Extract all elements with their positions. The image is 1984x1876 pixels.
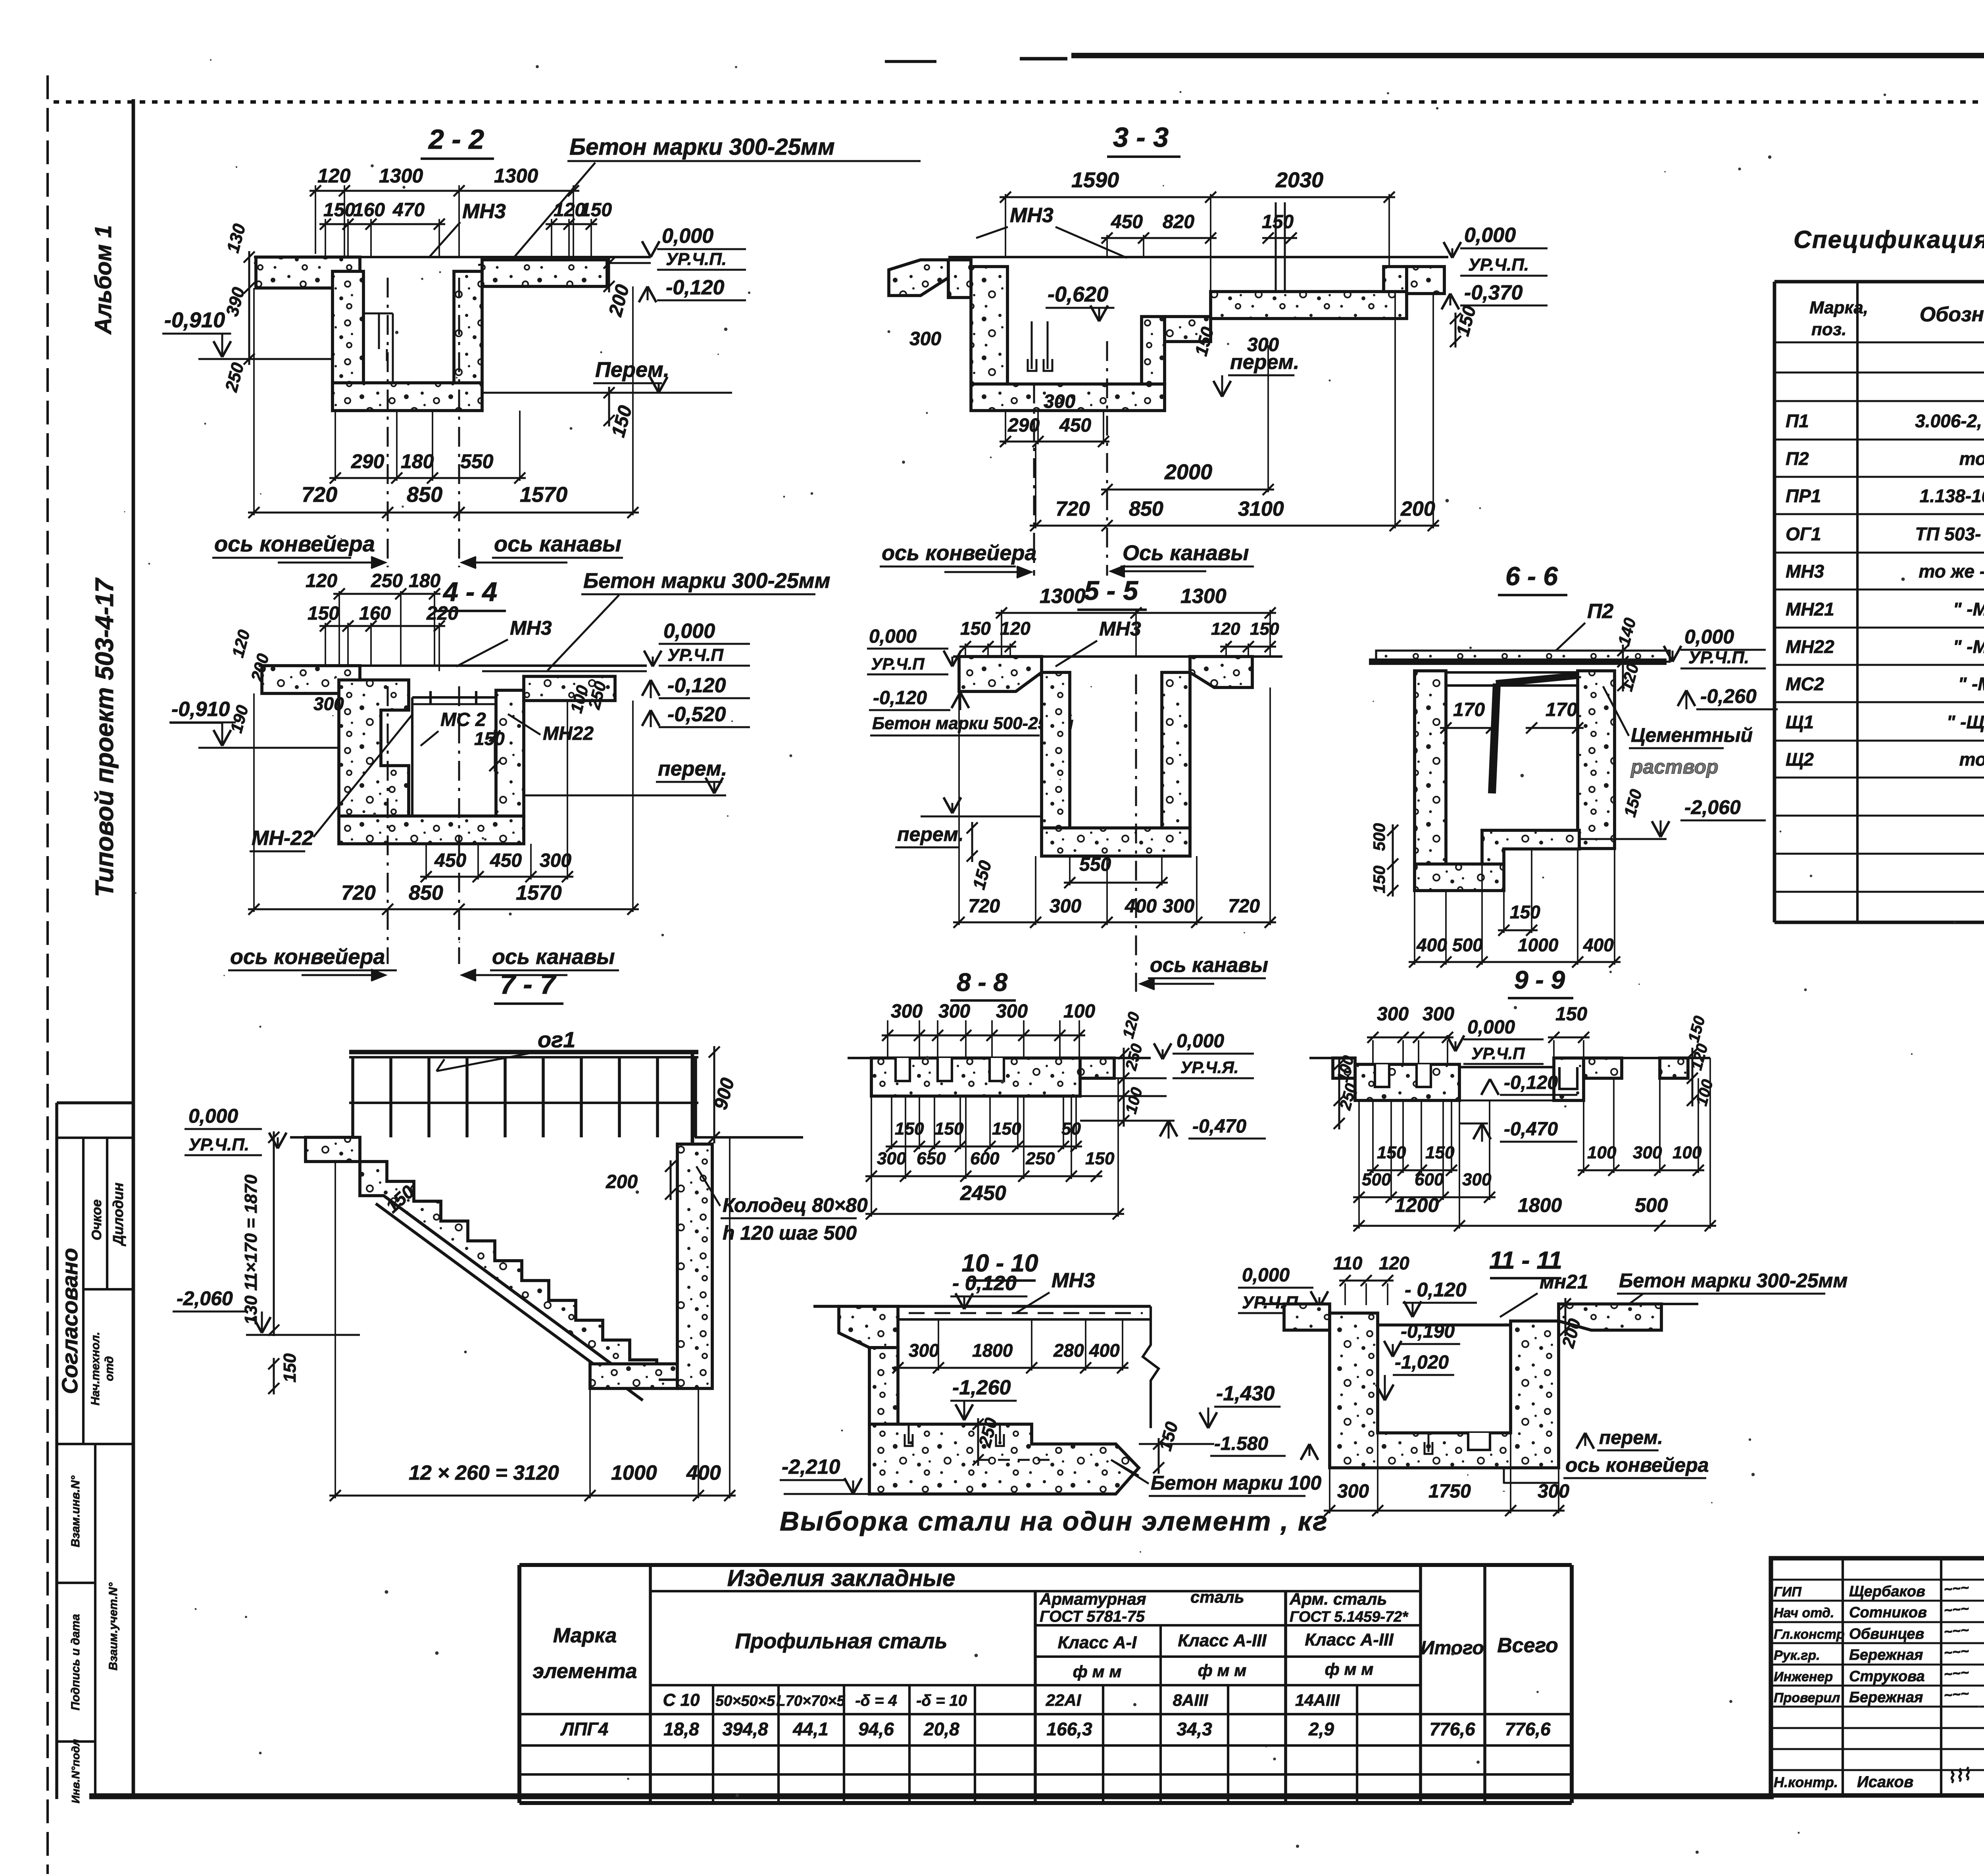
section 7-7 witness lines: [335, 1162, 336, 1498]
svg-text:-0,120: -0,120: [873, 687, 927, 709]
svg-text:3 - 3: 3 - 3: [1113, 122, 1169, 153]
svg-text:0,000: 0,000: [1467, 1017, 1515, 1038]
svg-text:ог1: ог1: [538, 1027, 575, 1052]
svg-text:150: 150: [1510, 902, 1540, 922]
svg-text:ЛПГ4: ЛПГ4: [560, 1719, 609, 1740]
section 5-5 bottom dims: [953, 922, 1276, 924]
section 6-6 inner dark liner: [1492, 684, 1497, 793]
svg-text:776,6: 776,6: [1429, 1719, 1475, 1740]
section 4-4 witness lines: [338, 591, 340, 666]
svg-text:300: 300: [1377, 1004, 1409, 1025]
svg-text:-0,470: -0,470: [1192, 1116, 1246, 1137]
svg-text:УР.Ч.П: УР.Ч.П: [871, 655, 925, 673]
section 7-7 floor lines: [290, 1136, 355, 1139]
section 9-9 left slab concrete: [1355, 1064, 1459, 1100]
section 3-3 left cut floor slab: [889, 260, 948, 296]
svg-text:300: 300: [1423, 1004, 1454, 1025]
svg-text:ГОСТ 5.1459-72*: ГОСТ 5.1459-72*: [1290, 1609, 1409, 1625]
svg-text:0,000: 0,000: [663, 620, 715, 643]
svg-text:300: 300: [877, 1149, 906, 1168]
svg-text:МН3: МН3: [1099, 618, 1141, 640]
svg-text:Изделия закладные: Изделия закладные: [727, 1565, 955, 1591]
svg-text:ОГ1: ОГ1: [1786, 524, 1821, 544]
svg-text:-1,260: -1,260: [952, 1376, 1011, 1399]
svg-text:100: 100: [1063, 1001, 1095, 1022]
svg-text:150: 150: [960, 618, 991, 639]
svg-text:Бережная: Бережная: [1849, 1647, 1923, 1663]
bottom table grid: [519, 1563, 1572, 1567]
svg-text:~~~: ~~~: [1943, 1622, 1969, 1640]
svg-text:150: 150: [934, 1119, 964, 1139]
section 5-5 right wall concrete: [1162, 672, 1190, 828]
svg-text:Дилодин: Дилодин: [110, 1183, 126, 1246]
svg-text:3100: 3100: [1238, 497, 1284, 520]
svg-text:-0,910: -0,910: [164, 308, 225, 332]
svg-text:ось конвейера: ось конвейера: [1565, 1454, 1709, 1476]
section 10-10 break line: [1143, 1306, 1159, 1428]
svg-text:450: 450: [490, 850, 522, 871]
svg-text:Бетон марки 300-25мм: Бетон марки 300-25мм: [1619, 1269, 1848, 1292]
svg-text:400: 400: [1089, 1340, 1120, 1361]
section 4-4 inner metal box MC2: [412, 697, 496, 816]
svg-text:Обвинцев: Обвинцев: [1849, 1626, 1924, 1642]
svg-text:Итого: Итого: [1421, 1638, 1484, 1659]
svg-text:500: 500: [1635, 1194, 1668, 1216]
section 3-3 pipe lines: [1275, 202, 1277, 292]
section 2-2 floor level lines: [254, 256, 651, 258]
svg-text:2030: 2030: [1275, 168, 1323, 192]
section 8-8 right ledge: [1080, 1058, 1114, 1078]
section 8-8 slab concrete: [871, 1058, 1080, 1096]
svg-text:300: 300: [909, 328, 941, 349]
section 9-9 far right piece: [1660, 1058, 1688, 1078]
svg-text:МН3: МН3: [462, 200, 506, 223]
section 11-11 inner anchors: [1428, 1433, 1430, 1452]
bottom frame thick line: [89, 1793, 1774, 1799]
svg-text:3.006-2, вып.П-2: 3.006-2, вып.П-2: [1915, 411, 1984, 431]
section 2-2 bottom dims row2: [248, 512, 639, 514]
svg-text:УР.Ч.П.: УР.Ч.П.: [666, 250, 727, 269]
svg-text:Струкова: Струкова: [1849, 1668, 1925, 1685]
svg-text:0,000: 0,000: [869, 626, 917, 647]
svg-text:МН-22: МН-22: [252, 827, 313, 850]
svg-text:Сотников: Сотников: [1849, 1604, 1927, 1621]
svg-text:300: 300: [996, 1001, 1028, 1022]
svg-text:850: 850: [407, 483, 442, 507]
section 10-10 left edge concrete: [839, 1306, 898, 1348]
svg-text:0,000: 0,000: [662, 225, 713, 248]
section 6-6 floor slab strip: [1376, 651, 1670, 662]
svg-text:1000: 1000: [611, 1461, 657, 1484]
section 7-7 stair underside line: [376, 1204, 643, 1400]
svg-text:1750: 1750: [1428, 1481, 1471, 1502]
svg-text:0,000: 0,000: [1177, 1031, 1224, 1052]
svg-text:180: 180: [409, 570, 440, 591]
section 3-3 rebar hooks: [1031, 321, 1033, 369]
svg-text:Бережная: Бережная: [1849, 1689, 1923, 1706]
svg-text:L70×70×5: L70×70×5: [776, 1693, 845, 1709]
svg-text:0,000: 0,000: [1242, 1265, 1290, 1286]
svg-text:94,6: 94,6: [858, 1719, 894, 1740]
svg-text:МС 2: МС 2: [440, 709, 486, 730]
svg-text:300: 300: [1538, 1481, 1569, 1502]
svg-text:-0,910: -0,910: [171, 698, 230, 721]
svg-text:250: 250: [371, 570, 403, 591]
svg-text:0,000: 0,000: [1464, 224, 1516, 247]
section 9-9 left edge piece: [1333, 1058, 1355, 1078]
section 3-3 right wall concrete: [1384, 267, 1407, 292]
svg-text:200: 200: [1400, 497, 1435, 520]
section 4-4 left wall concrete: [339, 680, 409, 816]
svg-text:500: 500: [1452, 935, 1483, 955]
svg-text:650: 650: [917, 1149, 946, 1168]
svg-text:34,3: 34,3: [1177, 1719, 1212, 1740]
svg-text:150: 150: [580, 200, 612, 221]
section 10-10 witness lines: [897, 1319, 899, 1371]
svg-text:Марка,: Марка,: [1809, 298, 1868, 317]
svg-text:" -МН22: " -МН22: [1953, 636, 1984, 657]
svg-text:170: 170: [1546, 699, 1577, 720]
section 2-2 axis lines: [387, 278, 389, 567]
section 11-11 pit concrete U: [1330, 1313, 1559, 1468]
svg-text:300: 300: [891, 1001, 923, 1022]
svg-text:МН3: МН3: [1052, 1269, 1095, 1292]
svg-text:1570: 1570: [516, 881, 562, 904]
section 4-4 right wall concrete: [496, 690, 524, 816]
svg-text:150: 150: [992, 1119, 1021, 1139]
section 3-3 floor line: [948, 256, 1448, 258]
section 5-5 floor line: [953, 655, 1282, 658]
svg-text:720: 720: [302, 483, 337, 507]
svg-text:20,8: 20,8: [923, 1719, 959, 1740]
svg-text:Альбом 1: Альбом 1: [90, 225, 116, 335]
svg-text:П2: П2: [1587, 600, 1613, 623]
section 4-4 right ledge concrete: [524, 676, 615, 701]
section 10-10 top slab lines: [898, 1305, 1151, 1308]
section 4-4 bottom dims row1: [420, 876, 573, 878]
svg-text:УР.Ч.П: УР.Ч.П: [667, 645, 724, 665]
svg-text:14АIII: 14АIII: [1295, 1691, 1340, 1709]
svg-text:перем.: перем.: [1230, 351, 1299, 374]
svg-text:Нач отд.: Нач отд.: [1774, 1605, 1834, 1621]
section 8-8 grooves: [896, 1058, 910, 1081]
section 4-4 left ledge concrete: [262, 666, 360, 693]
svg-text:100: 100: [1673, 1143, 1702, 1162]
section 6-6 bottom left slab: [1415, 864, 1504, 891]
svg-text:~~~: ~~~: [1943, 1579, 1969, 1598]
section 4-4 floor line: [259, 664, 647, 667]
svg-text:300: 300: [1633, 1143, 1662, 1162]
svg-text:~~~: ~~~: [1943, 1664, 1969, 1682]
svg-text:2 - 2: 2 - 2: [428, 124, 484, 155]
svg-text:120: 120: [306, 570, 337, 591]
svg-text:МН3: МН3: [1010, 204, 1054, 227]
svg-text:Щербаков: Щербаков: [1849, 1583, 1925, 1600]
section 7-7 bottom slab concrete: [590, 1364, 677, 1388]
section 2-2 right ledge concrete: [482, 260, 607, 286]
svg-text:290: 290: [351, 450, 384, 472]
section 11-11 right ledge concrete: [1559, 1304, 1661, 1330]
section 5-5 axis line: [1135, 674, 1137, 992]
svg-text:-1,430: -1,430: [1216, 1382, 1275, 1405]
section 5-5 bottom slab concrete: [1042, 828, 1190, 856]
svg-text:150: 150: [323, 200, 355, 221]
section 5-5 right ledge concrete: [1190, 657, 1252, 687]
svg-text:300: 300: [1050, 896, 1081, 917]
svg-text:1.138-10, вып.1: 1.138-10, вып.1: [1920, 486, 1984, 506]
section 9-9 grooves: [1375, 1064, 1389, 1087]
svg-text:то же -АС-МН3: то же -АС-МН3: [1919, 561, 1984, 582]
section 8-8 witness lines: [887, 1020, 888, 1058]
svg-text:394,8: 394,8: [722, 1719, 768, 1740]
svg-text:166,3: 166,3: [1046, 1719, 1092, 1740]
svg-text:Арматурная: Арматурная: [1039, 1590, 1146, 1608]
svg-text:Щ1: Щ1: [1786, 712, 1814, 732]
svg-text:720: 720: [1055, 497, 1090, 520]
svg-text:450: 450: [1059, 415, 1091, 436]
svg-text:отд: отд: [103, 1356, 116, 1381]
svg-text:1570: 1570: [520, 483, 567, 507]
svg-text:0,000: 0,000: [1684, 626, 1734, 648]
title block signature columns: [1842, 1558, 1844, 1795]
section 9-9 right pit concrete: [1554, 1058, 1584, 1100]
svg-text:ось конвейера: ось конвейера: [882, 541, 1036, 565]
section 9-9 right ledge: [1584, 1058, 1622, 1078]
section 4-4 bottom dims row2: [248, 908, 639, 910]
svg-text:ГОСТ 5781-75: ГОСТ 5781-75: [1040, 1608, 1145, 1625]
svg-text:550: 550: [460, 450, 494, 472]
svg-text:П2: П2: [1786, 448, 1809, 469]
svg-text:150: 150: [1425, 1143, 1455, 1162]
section 5-5 left ledge concrete: [959, 657, 1042, 691]
svg-text:Ось канавы: Ось канавы: [1123, 541, 1249, 565]
svg-text:-2,060: -2,060: [177, 1287, 233, 1310]
svg-text:Марка: Марка: [553, 1624, 617, 1647]
section 6-6 top liner slab: [1446, 672, 1592, 685]
paper noise specks: [888, 330, 890, 333]
svg-text:850: 850: [1129, 497, 1163, 520]
section 3-3 top dimension line: [1000, 196, 1395, 198]
svg-text:2450: 2450: [960, 1182, 1006, 1205]
section 5-5 left wall concrete: [1042, 672, 1070, 828]
section 7-7 stairs concrete: [360, 1162, 659, 1380]
svg-text:1300: 1300: [494, 165, 538, 187]
svg-text:600: 600: [970, 1149, 1000, 1168]
svg-text:120: 120: [1379, 1253, 1409, 1273]
svg-text:1000: 1000: [1518, 935, 1559, 955]
section 6-6 mid step slab: [1482, 830, 1579, 864]
svg-text:400: 400: [1416, 935, 1447, 955]
svg-text:4 - 4: 4 - 4: [442, 577, 497, 607]
svg-text:Профильная сталь: Профильная сталь: [735, 1629, 947, 1653]
svg-text:500: 500: [1362, 1170, 1391, 1189]
svg-text:1800: 1800: [972, 1340, 1013, 1361]
svg-text:-0,120: -0,120: [667, 674, 726, 697]
section 3-3 middle wall concrete: [1142, 317, 1165, 384]
svg-text:7 - 7: 7 - 7: [500, 969, 557, 1000]
svg-text:-0,260: -0,260: [1700, 685, 1757, 707]
svg-text:120: 120: [1211, 619, 1240, 639]
svg-text:сталь: сталь: [1190, 1588, 1244, 1606]
svg-text:Взаим.учет.N°: Взаим.учет.N°: [107, 1582, 120, 1671]
title block outline: [1771, 1558, 1984, 1795]
section 2-2 top dimension line 2: [319, 223, 445, 225]
section 2-2 bottom dims row1: [329, 477, 526, 479]
svg-text:-1.580: -1.580: [1214, 1433, 1268, 1454]
svg-text:8 - 8: 8 - 8: [957, 968, 1007, 997]
svg-text:450: 450: [1111, 211, 1143, 232]
svg-text:ось канавы: ось канавы: [494, 531, 621, 556]
svg-text:перем.: перем.: [658, 757, 727, 780]
section 5-5 witness lines: [1001, 610, 1002, 657]
svg-text:Подпись и дата: Подпись и дата: [69, 1614, 82, 1710]
section 11-11 witness lines: [1329, 1468, 1330, 1513]
svg-text:150: 150: [1370, 866, 1388, 893]
svg-text:~~~: ~~~: [1943, 1685, 1969, 1703]
svg-text:12 × 260 = 3120: 12 × 260 = 3120: [409, 1461, 559, 1484]
svg-text:470: 470: [392, 200, 425, 221]
section 2-2 bottom slab concrete: [333, 383, 482, 411]
svg-text:220: 220: [426, 603, 458, 624]
svg-text:УР.Ч.П.: УР.Ч.П.: [188, 1135, 249, 1154]
section 2-2 left wall concrete: [333, 271, 363, 411]
svg-text:УР.Ч.П.: УР.Ч.П.: [1688, 648, 1749, 667]
svg-text:-0,470: -0,470: [1504, 1119, 1558, 1140]
section 11-11 inner liner: [1378, 1323, 1511, 1327]
section 7-7 right wall concrete: [677, 1144, 712, 1388]
svg-text:Спецификация изделий на л: Спецификация изделий на линию поточную Л…: [1794, 226, 1984, 253]
svg-text:Бетон марки 300-25мм: Бетон марки 300-25мм: [569, 134, 835, 160]
svg-text:Гл.констр: Гл.констр: [1774, 1627, 1845, 1642]
svg-text:180: 180: [401, 450, 434, 472]
svg-text:-0,120: -0,120: [666, 276, 725, 299]
svg-text:УР.Ч.П.: УР.Ч.П.: [1468, 255, 1529, 275]
svg-text:ось конвейера: ось конвейера: [214, 531, 375, 556]
left band approval table: [57, 1137, 133, 1139]
section 5-5 top dim: [996, 612, 1276, 614]
svg-text:МН21: МН21: [1786, 599, 1834, 619]
svg-text:-0,190: -0,190: [1401, 1321, 1455, 1342]
svg-text:-δ = 10: -δ = 10: [916, 1692, 967, 1709]
svg-text:400: 400: [1583, 935, 1614, 955]
section 10-10 inner anchors: [908, 1424, 910, 1444]
section 2-2 right wall concrete: [454, 271, 482, 383]
section 2-2 top dimension line 1: [310, 190, 579, 192]
svg-text:1300: 1300: [379, 165, 423, 187]
svg-text:" -Щ1,Щ2: " -Щ1,Щ2: [1947, 712, 1984, 732]
section 2-2 inner notch lines: [363, 288, 365, 383]
svg-text:перем.: перем.: [897, 823, 964, 845]
svg-text:280: 280: [1053, 1340, 1084, 1361]
svg-text:300: 300: [909, 1340, 939, 1361]
svg-text:Класс А-III: Класс А-III: [1178, 1631, 1267, 1650]
svg-text:Проверил: Проверил: [1774, 1690, 1840, 1705]
svg-text:1200: 1200: [1395, 1194, 1439, 1216]
svg-text:- 0,120: - 0,120: [952, 1272, 1017, 1295]
svg-text:150: 150: [308, 603, 339, 624]
svg-text:120: 120: [317, 165, 351, 187]
svg-text:мн21: мн21: [1540, 1271, 1588, 1293]
svg-text:-2,060: -2,060: [1684, 796, 1741, 818]
svg-text:ф м м: ф м м: [1073, 1662, 1122, 1681]
svg-text:ТП 503- -АС-ОГ1: ТП 503- -АС-ОГ1: [1915, 524, 1984, 544]
svg-text:0,000: 0,000: [188, 1105, 238, 1127]
section 6-6 witness lines: [1414, 891, 1415, 965]
svg-text:820: 820: [1163, 211, 1194, 232]
svg-text:11 - 11: 11 - 11: [1489, 1247, 1562, 1274]
section 2-2 witness lines: [344, 185, 345, 257]
svg-text:2000: 2000: [1164, 460, 1212, 484]
svg-text:то же: то же: [1959, 749, 1984, 770]
svg-text:Арм. сталь: Арм. сталь: [1289, 1590, 1387, 1608]
top frame thick line: [1071, 53, 1984, 58]
svg-text:18,8: 18,8: [663, 1719, 699, 1740]
section 3-3 canal floor slab concrete: [1211, 292, 1407, 319]
svg-text:-0,120: -0,120: [1504, 1072, 1558, 1093]
svg-text:МН3: МН3: [1786, 561, 1824, 582]
svg-text:элемента: элемента: [533, 1660, 637, 1683]
section 7-7 bottom dims: [329, 1495, 736, 1497]
section 3-3 axis lines: [1033, 384, 1035, 576]
svg-text:600: 600: [1415, 1170, 1444, 1189]
section 10-10 bottom mass concrete: [869, 1424, 1139, 1494]
svg-text:200: 200: [606, 1171, 638, 1192]
svg-text:1300: 1300: [1040, 585, 1086, 608]
svg-text:400: 400: [1125, 896, 1157, 917]
svg-text:Обозначение: Обозначение: [1920, 303, 1984, 326]
section 9-9 middle floor lines: [1459, 1066, 1554, 1068]
svg-text:150: 150: [1250, 619, 1279, 639]
svg-text:ось канавы: ось канавы: [492, 945, 615, 969]
svg-text:Класс А-I: Класс А-I: [1058, 1633, 1137, 1652]
svg-text:720: 720: [1228, 896, 1260, 917]
svg-text:Рук.гр.: Рук.гр.: [1774, 1648, 1820, 1663]
svg-text:300: 300: [313, 693, 344, 714]
section 7-7 railing OG1: [349, 1050, 698, 1054]
svg-text:ось конвейера: ось конвейера: [230, 945, 385, 969]
section 3-3 dim line 2: [1101, 237, 1217, 239]
svg-text:50×50×5: 50×50×5: [715, 1693, 775, 1709]
section 9-9 witness lines: [1372, 1040, 1374, 1064]
section 2-2 left ledge concrete: [256, 257, 360, 288]
svg-text:ось канавы: ось канавы: [1150, 954, 1268, 977]
svg-text:1300: 1300: [1180, 585, 1227, 608]
svg-text:- 0,120: - 0,120: [1405, 1279, 1467, 1301]
section 7-7 pit inner lines: [659, 1379, 677, 1381]
svg-text:" -МН21: " -МН21: [1953, 599, 1984, 619]
svg-text:450: 450: [434, 850, 466, 871]
svg-text:170: 170: [1453, 699, 1485, 720]
svg-text:МН3: МН3: [510, 617, 552, 639]
svg-text:150: 150: [1085, 1149, 1115, 1168]
svg-text:Бетон марки 300-25мм: Бетон марки 300-25мм: [583, 569, 831, 593]
section 7-7 left ledge concrete: [306, 1137, 360, 1162]
svg-text:h 120 шаг 500: h 120 шаг 500: [723, 1222, 857, 1244]
svg-text:Инв.N°подл: Инв.N°подл: [69, 1739, 82, 1803]
svg-text:-0,620: -0,620: [1048, 282, 1108, 306]
section 4-4 axis lines: [387, 686, 389, 964]
svg-text:перем.: перем.: [1599, 1427, 1663, 1448]
section 6-6 right wall concrete: [1578, 671, 1615, 849]
specification table grid: [1774, 280, 1984, 284]
svg-text:300: 300: [938, 1001, 970, 1022]
svg-text:850: 850: [409, 881, 443, 904]
svg-text:УР.Ч.П: УР.Ч.П: [1471, 1044, 1525, 1063]
svg-text:9 - 9: 9 - 9: [1514, 966, 1565, 994]
svg-text:то же: то же: [1959, 448, 1984, 469]
svg-text:Бетон марки 100: Бетон марки 100: [1151, 1472, 1321, 1494]
svg-text:-0,370: -0,370: [1464, 281, 1523, 304]
